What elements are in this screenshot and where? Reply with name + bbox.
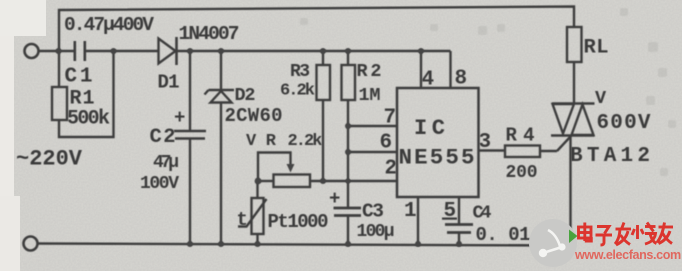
svg-text:1N4007: 1N4007 [179,23,240,45]
svg-text:www.elecfans.com: www.elecfans.com [574,248,681,262]
svg-text:0.47µ400V: 0.47µ400V [64,14,154,36]
svg-text:C2: C2 [150,126,176,149]
svg-text:200: 200 [506,163,538,183]
svg-text:500k: 500k [67,108,110,131]
svg-text:BTA12: BTA12 [570,145,650,168]
svg-text:100V: 100V [140,174,179,194]
svg-text:1M: 1M [359,85,381,106]
svg-text:0. 01: 0. 01 [476,224,531,246]
svg-text:RL: RL [584,37,609,60]
svg-text:4: 4 [422,69,435,92]
svg-text:2: 2 [385,158,398,181]
svg-text:D2: D2 [235,85,256,106]
svg-text:2.2k: 2.2k [288,132,323,151]
svg-text:2CW60: 2CW60 [225,105,283,127]
svg-text:NE555: NE555 [399,145,475,171]
svg-text:3: 3 [479,131,492,154]
svg-text:V: V [595,88,607,109]
svg-text:8: 8 [455,68,468,91]
svg-text:1: 1 [404,200,417,223]
svg-text:t: t [237,209,248,231]
svg-text:600V: 600V [597,112,651,135]
svg-text:R3: R3 [290,62,310,82]
svg-text:7: 7 [384,107,397,130]
svg-text:6.2k: 6.2k [280,82,315,101]
svg-text:C3: C3 [362,201,384,223]
svg-text:Pt1000: Pt1000 [268,211,329,233]
svg-text:C4: C4 [473,203,492,224]
svg-text:~220V: ~220V [16,147,83,172]
svg-text:6: 6 [380,132,393,155]
svg-text:D1: D1 [158,72,180,94]
svg-text:+: + [329,188,340,210]
svg-text:100µ: 100µ [357,222,395,242]
svg-text:+: + [174,107,185,129]
svg-text:47µ: 47µ [153,153,179,173]
